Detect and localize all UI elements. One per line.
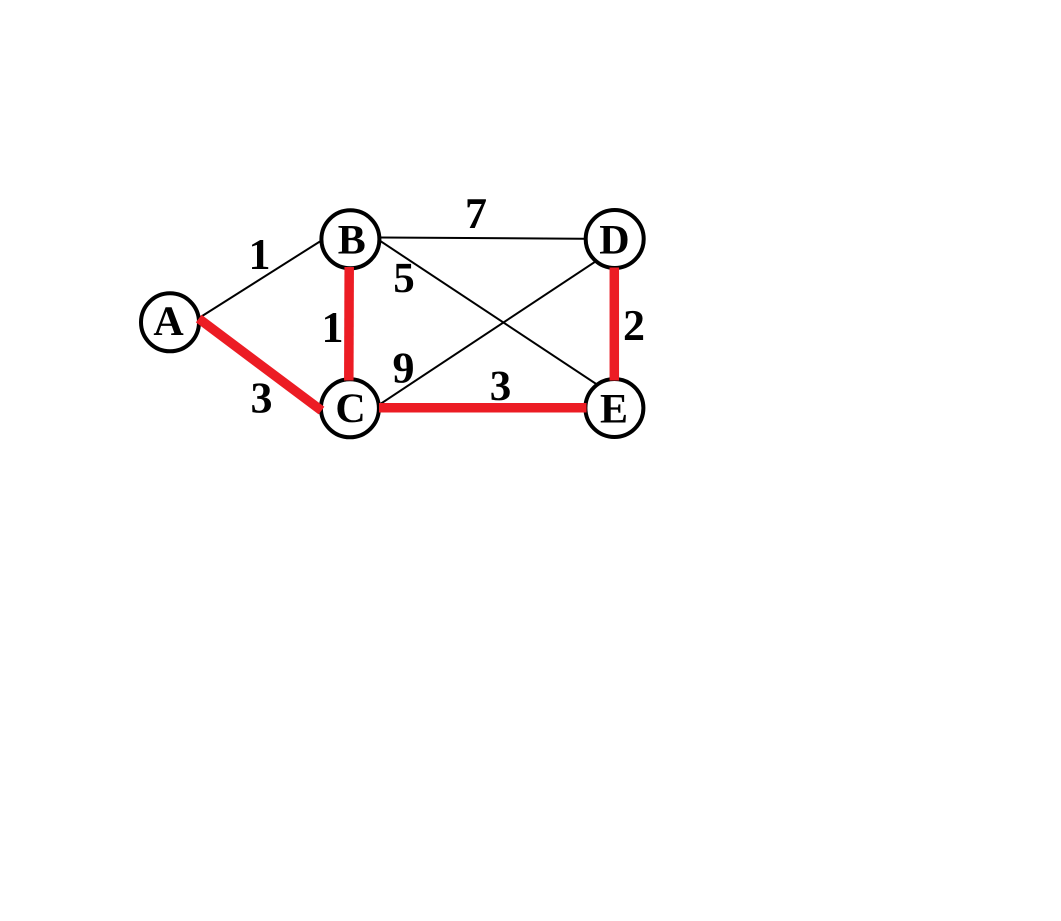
svg-text:C: C [335,386,365,432]
svg-text:B: B [338,218,366,264]
svg-text:3: 3 [251,374,273,423]
svg-text:3: 3 [490,363,512,410]
svg-text:1: 1 [322,303,344,352]
svg-text:1: 1 [249,230,271,279]
svg-text:9: 9 [393,344,415,393]
svg-text:A: A [153,299,184,345]
svg-text:5: 5 [393,255,415,302]
svg-text:D: D [599,218,629,264]
svg-text:E: E [600,387,628,433]
svg-text:2: 2 [623,301,645,350]
svg-text:7: 7 [465,189,487,238]
